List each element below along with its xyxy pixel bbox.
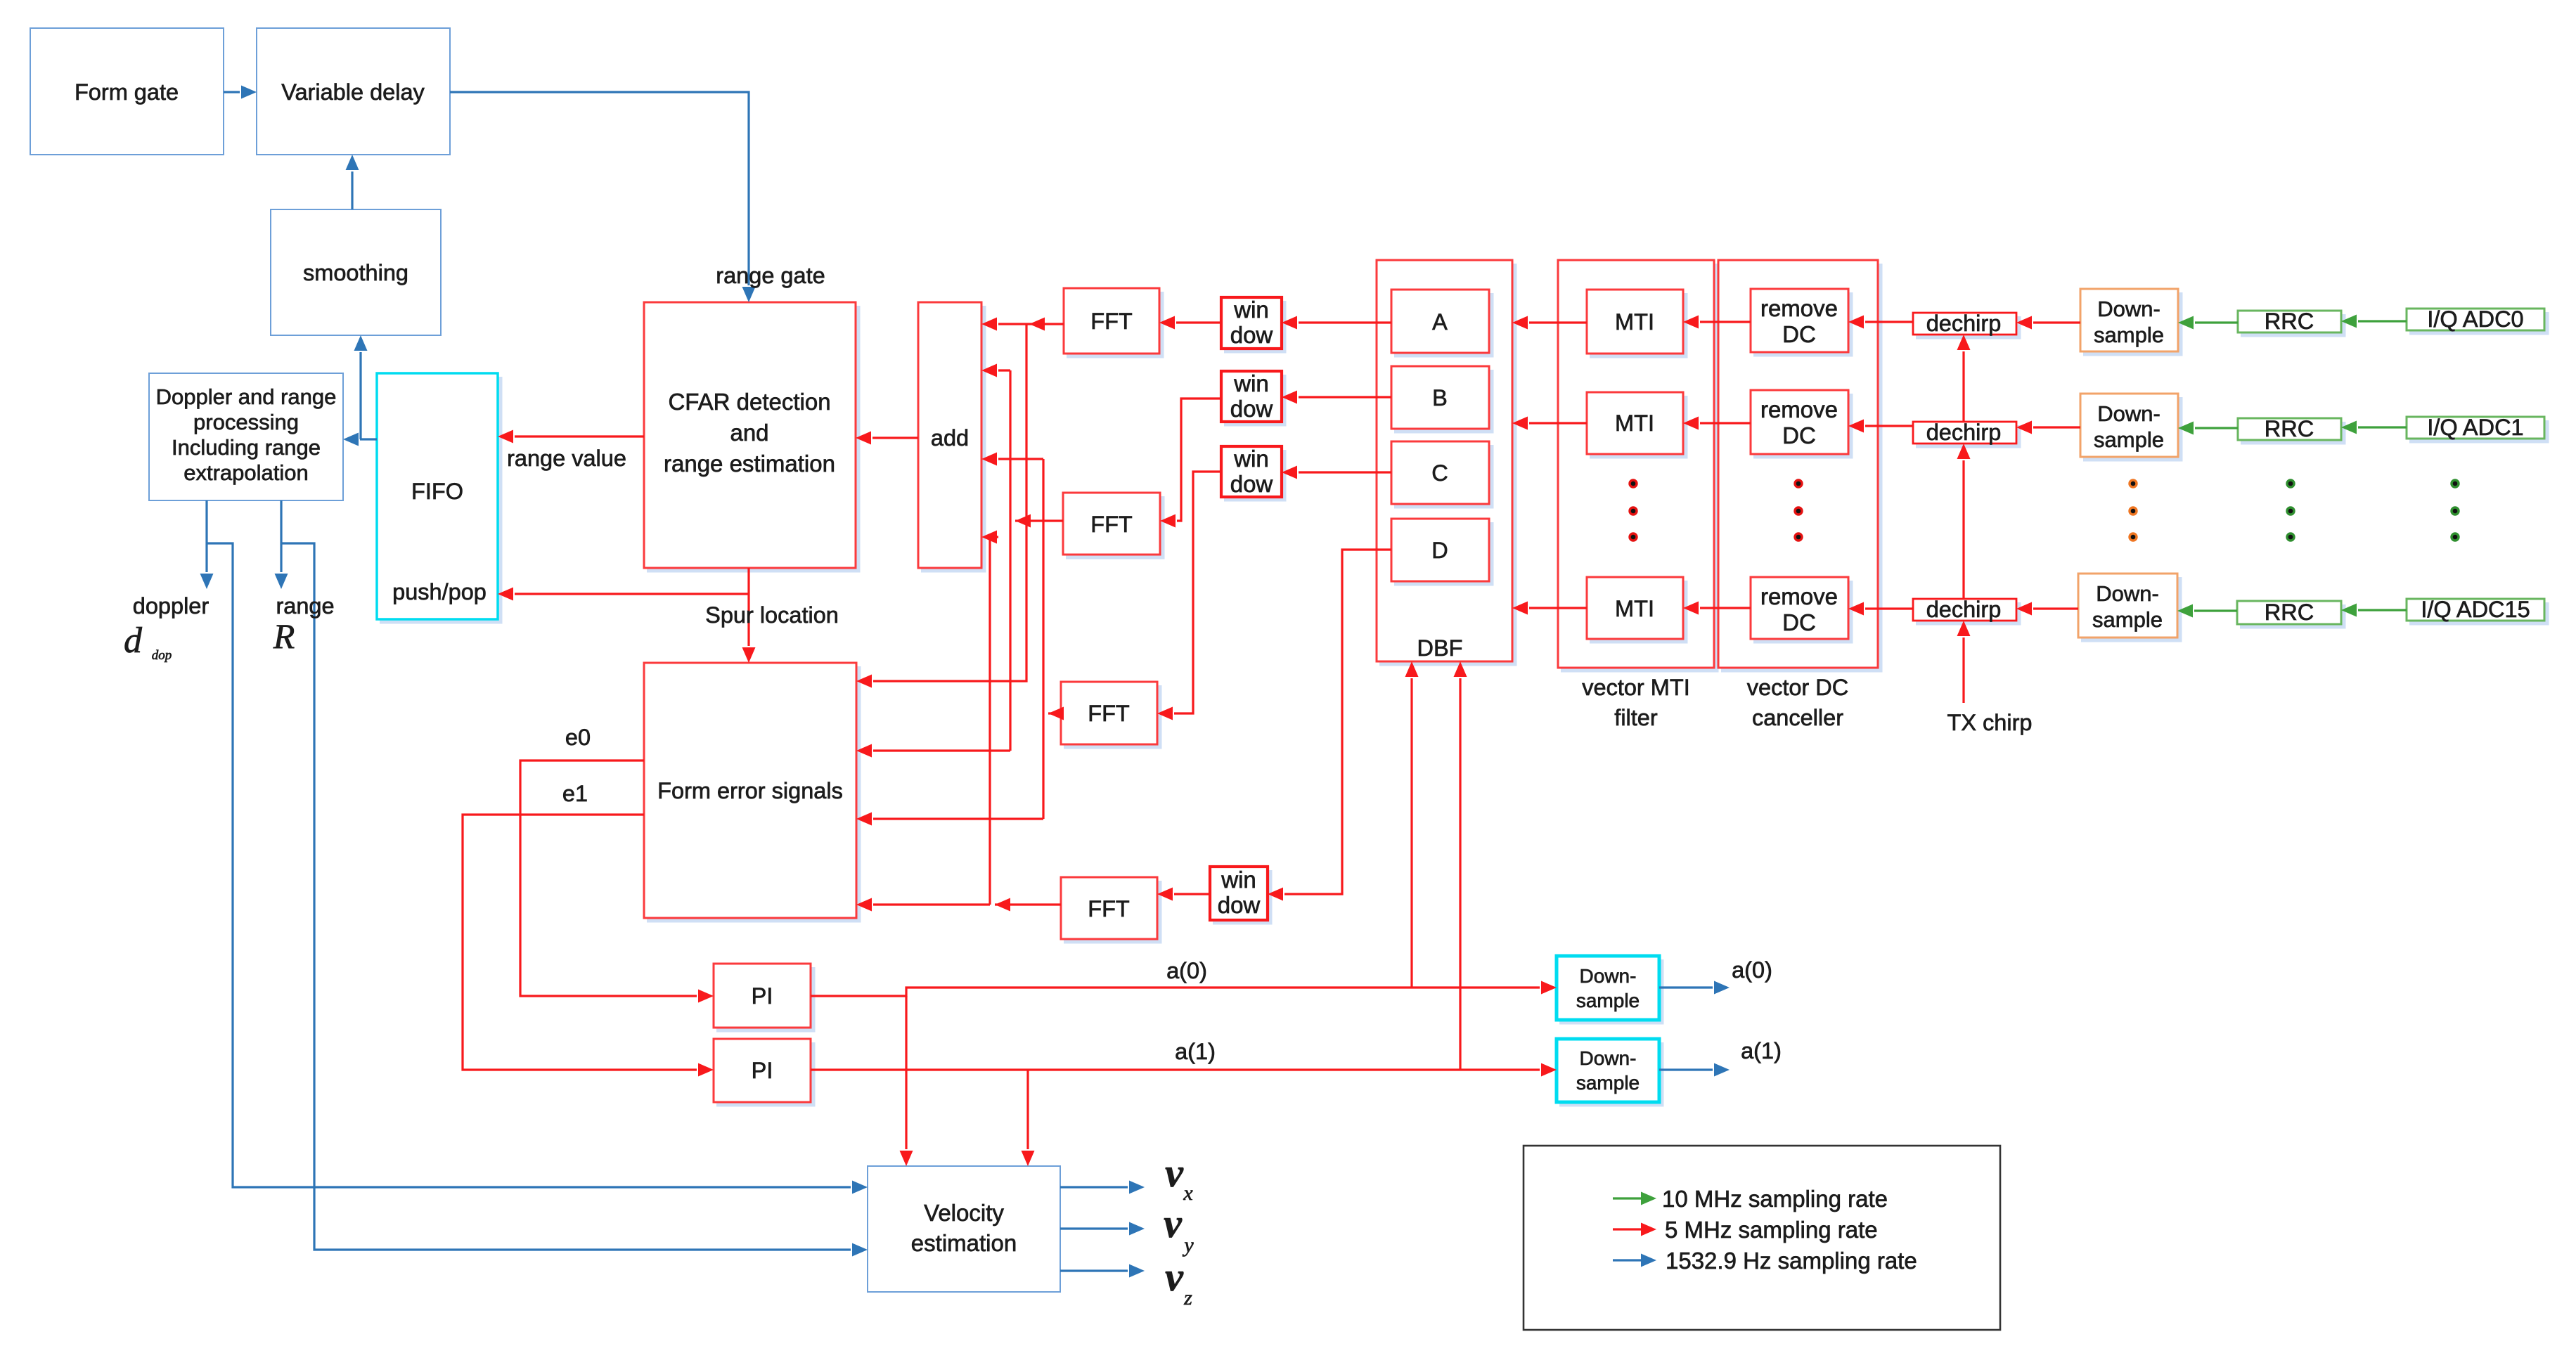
block FFT 1 <box>1064 288 1162 356</box>
block FFT 2 <box>1063 493 1163 557</box>
label d dop <box>124 621 172 663</box>
label range gate <box>716 263 825 288</box>
svg-text:win: win <box>1233 297 1269 323</box>
label range value <box>507 446 626 471</box>
svg-text:win: win <box>1233 370 1269 396</box>
svg-text:e0: e0 <box>565 725 591 750</box>
block RRC row3 <box>2237 600 2344 627</box>
wire RRC1 to downsample1 <box>2178 316 2238 330</box>
wire FFT2 out <box>1015 515 1063 528</box>
svg-text:TX chirp: TX chirp <box>1947 710 2032 735</box>
wire window1 to FFT1 <box>1159 316 1221 330</box>
label TX chirp <box>1947 710 2032 735</box>
legend 5 MHz sampling rate <box>1613 1217 1878 1243</box>
svg-text:Down-: Down- <box>1580 965 1637 987</box>
wire removeDC2 to MTI2 <box>1683 417 1751 430</box>
svg-text:10 MHz sampling rate: 10 MHz sampling rate <box>1662 1186 1888 1212</box>
wire a1 drop to velocity <box>1022 1070 1035 1166</box>
svg-text:smoothing: smoothing <box>303 260 408 285</box>
svg-text:Down-: Down- <box>1580 1047 1637 1069</box>
wire vertical v1408 <box>988 537 991 905</box>
block window 1 <box>1221 297 1284 351</box>
svg-text:a(1): a(1) <box>1741 1038 1782 1063</box>
label vx <box>1165 1150 1193 1205</box>
svg-text:dow: dow <box>1230 322 1273 348</box>
svg-text:doppler: doppler <box>133 593 210 619</box>
wire vertical v1437 <box>1009 370 1011 751</box>
wire window3 to FFT3 <box>1157 472 1221 720</box>
block Down-sample row1 <box>2080 289 2181 354</box>
svg-text:Down-: Down- <box>2097 297 2160 321</box>
wire D to window4 <box>1268 550 1391 901</box>
wire a0 up to DBF <box>1405 661 1419 988</box>
block Down-sample a1 <box>1557 1039 1662 1105</box>
wire doppler output <box>200 500 214 589</box>
wire v1484 to Form error in3 <box>856 813 1043 826</box>
block window 2 <box>1221 370 1284 425</box>
wire branch to FIFO push/pop <box>498 588 749 601</box>
block FIFO <box>377 373 501 622</box>
wire range output <box>275 500 288 589</box>
wire v1484 to add <box>981 453 1043 466</box>
wire velocity out vz <box>1060 1264 1145 1278</box>
dots IQ column <box>2452 480 2459 541</box>
wire vertical v1484 <box>1042 459 1044 819</box>
svg-text:sample: sample <box>1576 1072 1640 1094</box>
svg-text:and: and <box>730 420 768 446</box>
block MTI 2 <box>1587 392 1686 457</box>
block PI 2 <box>714 1039 813 1105</box>
svg-text:d: d <box>124 621 143 661</box>
block Down-sample row2 <box>2080 394 2181 460</box>
svg-text:CFAR detection: CFAR detection <box>668 389 830 415</box>
svg-text:range estimation: range estimation <box>664 451 835 477</box>
svg-text:Form error signals: Form error signals <box>657 778 843 803</box>
wire a1 up to DBF <box>1454 661 1467 1070</box>
svg-text:FFT: FFT <box>1088 701 1130 726</box>
svg-text:win: win <box>1233 446 1269 472</box>
wire IQ0 to RRC1 <box>2341 315 2407 328</box>
svg-text:dow: dow <box>1230 471 1273 497</box>
svg-text:v: v <box>1165 1150 1184 1196</box>
block DBF outer <box>1377 260 1515 664</box>
svg-text:remove: remove <box>1760 295 1838 321</box>
wire removeDC1 to MTI1 <box>1683 316 1751 329</box>
label vy <box>1164 1201 1194 1257</box>
block window 4 <box>1210 867 1270 923</box>
block I/Q ADC15 <box>2407 597 2547 623</box>
wire dechirp2 to dechirp1 <box>1957 335 1971 422</box>
block DBF C <box>1391 441 1492 507</box>
wire dechirp2 to removeDC2 <box>1848 420 1913 433</box>
block Doppler and range processing <box>149 373 343 500</box>
wire e0 <box>520 761 714 1003</box>
label range <box>276 593 334 619</box>
svg-text:RRC: RRC <box>2265 416 2314 441</box>
block remove DC 1 <box>1751 289 1851 355</box>
block MTI 1 <box>1587 290 1686 356</box>
svg-text:dow: dow <box>1218 892 1261 918</box>
block MTI 3 <box>1587 577 1686 642</box>
block I/Q ADC0 <box>2407 306 2547 333</box>
svg-text:Down-: Down- <box>2097 401 2160 426</box>
wire TX chirp to dechirp3 <box>1957 621 1971 703</box>
wire MTI3 to DBF <box>1512 602 1587 615</box>
svg-text:push/pop: push/pop <box>392 579 487 604</box>
svg-text:PI: PI <box>752 983 773 1009</box>
dots removeDC column <box>1795 480 1802 541</box>
wire PI1 to downsample a0 <box>811 981 1557 997</box>
block Velocity estimation <box>868 1166 1060 1292</box>
svg-text:canceller: canceller <box>1752 705 1843 730</box>
svg-text:e1: e1 <box>562 781 588 806</box>
wire FFT3 out <box>1048 707 1064 720</box>
wire velocity out vy <box>1060 1222 1145 1236</box>
label vector DC canceller <box>1747 675 1848 730</box>
wire B to window2 <box>1282 391 1391 404</box>
legend box <box>1524 1146 2000 1330</box>
block FFT 3 <box>1061 682 1160 747</box>
wire FFT1 to add <box>981 318 1064 331</box>
svg-text:I/Q ADC15: I/Q ADC15 <box>2421 597 2530 622</box>
wire FFT4 out <box>995 898 1061 912</box>
block CFAR detection and range estimation <box>644 302 858 571</box>
svg-text:R: R <box>273 616 295 656</box>
svg-text:v: v <box>1164 1201 1183 1246</box>
block dechirp 2 <box>1913 420 2019 446</box>
label a(0) <box>1166 958 1207 983</box>
wire doppler branch to velocity <box>207 543 868 1194</box>
wire e1 <box>463 815 714 1077</box>
legend 1532.9 Hz sampling rate <box>1613 1248 1917 1274</box>
block smoothing <box>271 209 441 335</box>
svg-text:range value: range value <box>507 446 626 471</box>
wire downsample3 to dechirp3 <box>2016 602 2078 616</box>
svg-text:C: C <box>1431 460 1448 486</box>
svg-text:y: y <box>1182 1234 1194 1257</box>
svg-text:RRC: RRC <box>2265 309 2314 334</box>
label a(0) right <box>1732 957 1772 983</box>
svg-text:Form gate: Form gate <box>75 79 179 105</box>
block vector DC canceller outer <box>1718 260 1881 671</box>
svg-text:a(0): a(0) <box>1166 958 1207 983</box>
block Form error signals <box>644 663 859 921</box>
wire IQ1 to RRC2 <box>2341 421 2407 434</box>
wire downsample1 to dechirp1 <box>2016 316 2080 330</box>
wire add to CFAR <box>856 432 918 445</box>
svg-text:PI: PI <box>752 1058 773 1083</box>
label vector MTI filter <box>1582 675 1690 730</box>
block Down-sample a0 <box>1557 956 1662 1023</box>
svg-text:add: add <box>931 425 969 451</box>
block Form gate <box>30 28 224 155</box>
svg-text:a(1): a(1) <box>1175 1039 1216 1064</box>
wire CFAR bottom to Form error Spur location <box>742 568 756 663</box>
svg-text:sample: sample <box>2094 323 2164 347</box>
wire IQ15 to RRC3 <box>2341 604 2407 617</box>
wire RRC3 to downsample3 <box>2177 604 2237 618</box>
svg-text:remove: remove <box>1760 583 1838 609</box>
wire window4 to FFT4 <box>1157 888 1210 901</box>
label e0 <box>565 725 591 750</box>
svg-text:5 MHz sampling rate: 5 MHz sampling rate <box>1665 1217 1878 1243</box>
dots downsample column <box>2130 480 2137 541</box>
svg-text:Velocity: Velocity <box>924 1200 1004 1226</box>
legend 10 MHz sampling rate <box>1613 1186 1888 1212</box>
label Spur location <box>705 602 839 628</box>
svg-text:Including range: Including range <box>172 435 321 460</box>
svg-text:filter: filter <box>1614 705 1658 730</box>
block DBF B <box>1391 366 1492 432</box>
svg-text:z: z <box>1183 1286 1192 1309</box>
block Down-sample row3 <box>2078 574 2180 640</box>
wire downsample2 to dechirp2 <box>2016 421 2080 434</box>
wire window2 to FFT2 <box>1160 399 1221 528</box>
svg-text:Spur location: Spur location <box>705 602 839 628</box>
svg-text:remove: remove <box>1760 396 1838 422</box>
wire A to window1 <box>1282 316 1391 330</box>
svg-text:sample: sample <box>2092 607 2163 632</box>
svg-text:DC: DC <box>1782 422 1816 448</box>
svg-text:range gate: range gate <box>716 263 825 288</box>
svg-text:Doppler and range: Doppler and range <box>156 384 337 409</box>
svg-text:win: win <box>1221 867 1256 893</box>
svg-text:Down-: Down- <box>2096 581 2159 606</box>
dots MTI column <box>1630 480 1637 541</box>
wire dechirp3 to dechirp2 <box>1957 444 1971 599</box>
svg-text:range: range <box>276 593 334 619</box>
svg-text:dow: dow <box>1230 396 1273 422</box>
label a(1) right <box>1741 1038 1782 1063</box>
svg-text:FIFO: FIFO <box>411 479 463 504</box>
svg-text:MTI: MTI <box>1615 410 1654 436</box>
wire CFAR to FIFO range value <box>498 430 644 444</box>
svg-text:A: A <box>1432 309 1448 335</box>
wire v1408 to add <box>981 531 998 544</box>
block dechirp 1 <box>1913 311 2019 337</box>
wire smoothing to Variable delay <box>346 155 359 209</box>
svg-text:MTI: MTI <box>1615 309 1654 335</box>
wire dechirp1 to removeDC1 <box>1848 316 1913 329</box>
block PI 1 <box>714 964 813 1030</box>
svg-text:FFT: FFT <box>1090 512 1133 537</box>
block RRC row2 <box>2238 416 2344 443</box>
wire RRC2 to downsample2 <box>2178 422 2238 435</box>
wire velocity out vx <box>1060 1181 1145 1194</box>
svg-text:dechirp: dechirp <box>1926 597 2002 622</box>
svg-text:MTI: MTI <box>1615 596 1654 621</box>
block vector MTI filter outer <box>1558 260 1717 671</box>
svg-text:vector DC: vector DC <box>1747 675 1848 700</box>
label vz <box>1165 1254 1192 1309</box>
wire junction up to smoothing <box>354 335 368 439</box>
block I/Q ADC1 <box>2407 415 2547 441</box>
block remove DC 3 <box>1751 577 1851 642</box>
wire FIFO to Doppler processing <box>343 433 377 446</box>
wire Variable delay to CFAR range gate <box>450 92 756 302</box>
svg-text:I/Q ADC1: I/Q ADC1 <box>2427 415 2523 440</box>
wire range branch to velocity <box>281 543 868 1257</box>
wire Form gate to Variable delay <box>224 86 257 99</box>
svg-text:B: B <box>1432 385 1448 410</box>
svg-text:D: D <box>1431 538 1448 563</box>
svg-text:sample: sample <box>1576 990 1640 1011</box>
svg-text:sample: sample <box>2094 427 2164 452</box>
svg-text:a(0): a(0) <box>1732 957 1772 983</box>
svg-text:vector MTI: vector MTI <box>1582 675 1690 700</box>
block dechirp 3 <box>1913 597 2019 623</box>
wire vertical v1460 to Form error in1 <box>856 324 1026 688</box>
label doppler <box>133 593 210 619</box>
svg-text:dop: dop <box>152 648 172 663</box>
label a(1) <box>1175 1039 1216 1064</box>
wire PI2 to downsample a1 <box>811 1063 1557 1077</box>
svg-text:v: v <box>1165 1254 1184 1300</box>
wire C to window3 <box>1282 466 1391 479</box>
svg-text:x: x <box>1183 1182 1193 1205</box>
wire dechirp3 to removeDC3 <box>1848 602 1913 616</box>
wire v1408 to Form error in4 <box>856 898 990 912</box>
svg-text:RRC: RRC <box>2265 600 2314 625</box>
block DBF A <box>1391 290 1492 356</box>
wire MTI1 to DBF <box>1512 316 1587 330</box>
wire downsample a0 out <box>1659 981 1730 995</box>
svg-text:estimation: estimation <box>911 1230 1017 1256</box>
svg-text:1532.9 Hz sampling rate: 1532.9 Hz sampling rate <box>1666 1248 1917 1274</box>
block Variable delay <box>257 28 450 155</box>
svg-text:FFT: FFT <box>1090 309 1133 334</box>
dots RRC column <box>2287 480 2294 541</box>
svg-text:Variable delay: Variable delay <box>281 79 425 105</box>
wire removeDC3 to MTI3 <box>1683 602 1751 615</box>
svg-text:FFT: FFT <box>1088 896 1130 921</box>
svg-text:processing: processing <box>193 410 299 434</box>
svg-text:I/Q ADC0: I/Q ADC0 <box>2427 306 2523 332</box>
wire downsample a1 out <box>1659 1063 1730 1077</box>
svg-text:DC: DC <box>1782 609 1816 635</box>
block remove DC 2 <box>1751 390 1851 457</box>
svg-text:DC: DC <box>1782 321 1816 347</box>
wire a0 drop to velocity <box>900 996 913 1166</box>
wire MTI2 to DBF <box>1512 417 1587 430</box>
block window 3 <box>1221 446 1284 500</box>
block DBF D <box>1391 519 1492 584</box>
svg-text:dechirp: dechirp <box>1926 420 2002 445</box>
svg-text:dechirp: dechirp <box>1926 311 2002 336</box>
wire v1437 to add <box>981 364 1010 377</box>
block add <box>918 302 984 571</box>
label R <box>273 616 295 656</box>
block FFT 4 <box>1061 877 1160 942</box>
wire v1437 to Form error in2 <box>856 744 1010 758</box>
label e1 <box>562 781 588 806</box>
block RRC row1 <box>2238 309 2344 335</box>
svg-text:DBF: DBF <box>1417 635 1463 661</box>
svg-text:extrapolation: extrapolation <box>183 460 309 485</box>
